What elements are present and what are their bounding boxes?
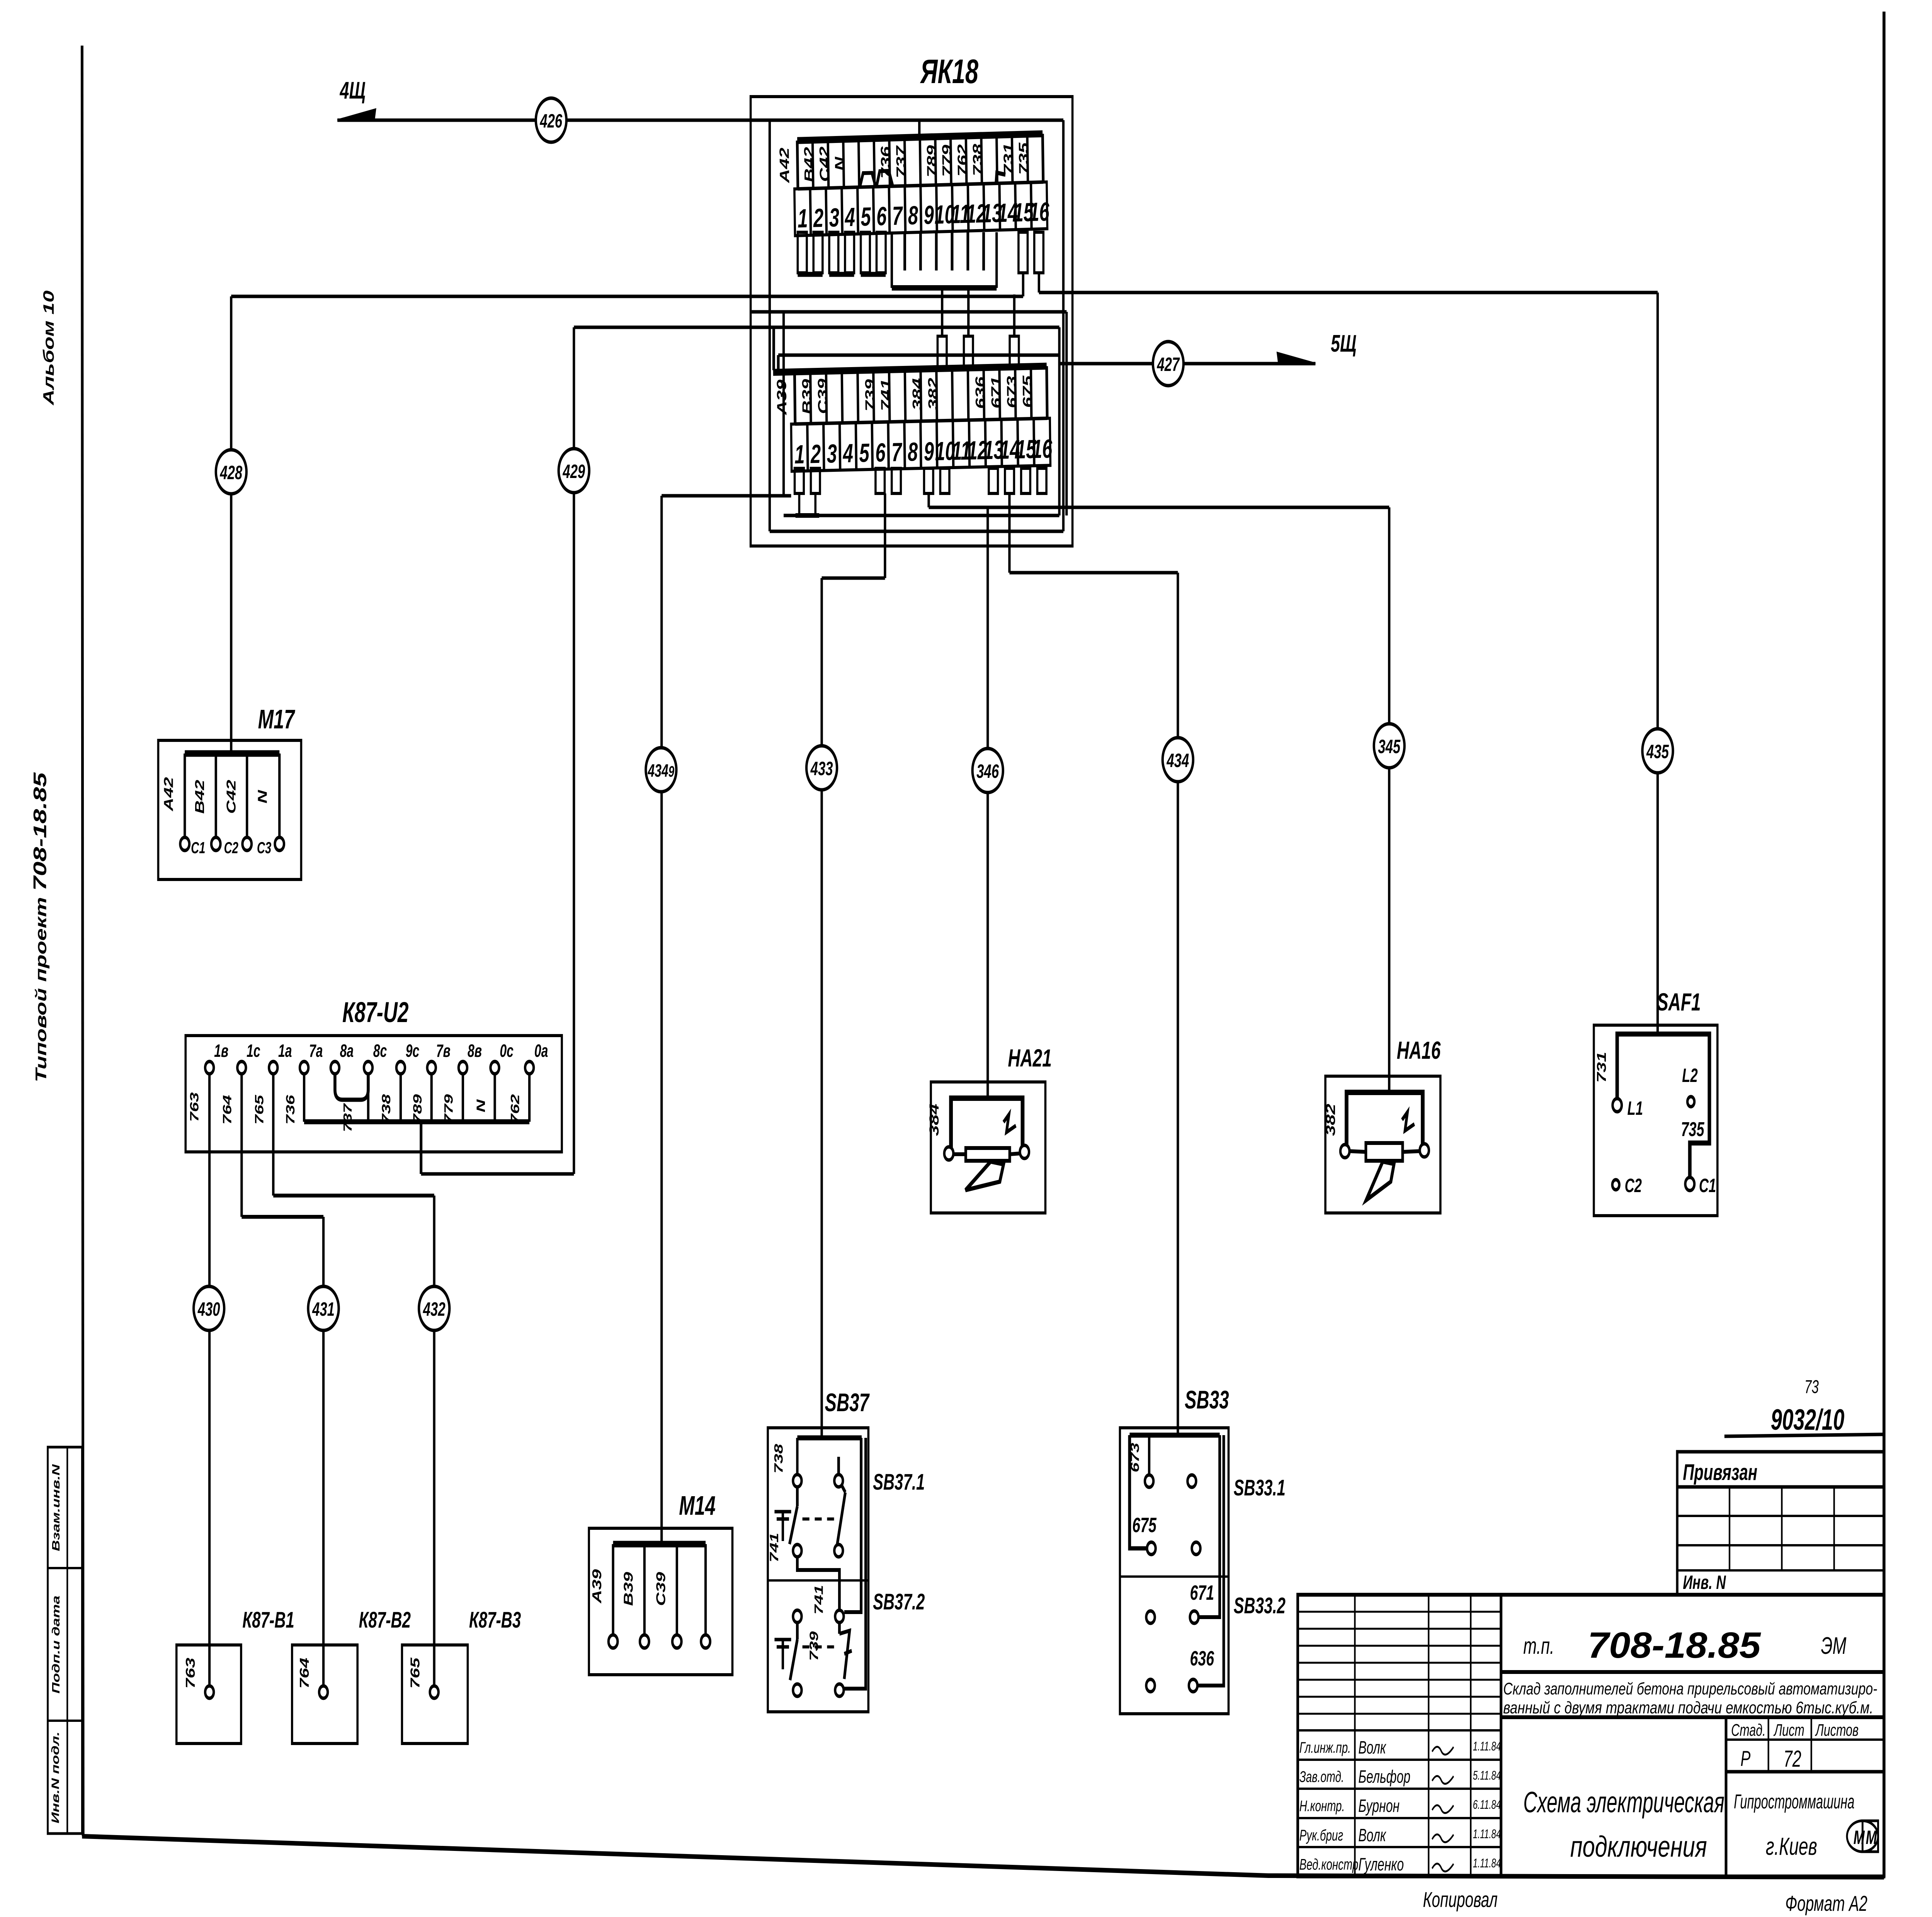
wire SB33 feeder with tag 434 <box>1009 493 1178 1435</box>
svg-text:Склад заполнителей бетона прир: Склад заполнителей бетона прирельсовый а… <box>1503 1680 1877 1699</box>
svg-text:1: 1 <box>794 440 805 469</box>
label SB37.2 <box>873 1589 925 1614</box>
margin label Inv.N podl. <box>50 1732 62 1823</box>
note Kopiroval <box>1423 1888 1498 1912</box>
SAF1 terminal L2 <box>1682 1065 1698 1107</box>
wire 4Shch feeder with tag 426 <box>337 109 1063 138</box>
svg-text:А39: А39 <box>774 379 790 416</box>
HA16 wire label 382 <box>1323 1104 1338 1136</box>
svg-text:5: 5 <box>861 202 871 231</box>
terminal strip YAK18 upper row cells <box>794 134 1047 236</box>
SAF1 terminal C2 <box>1612 1175 1642 1197</box>
svg-text:16: 16 <box>1032 434 1053 464</box>
svg-text:764: 764 <box>297 1658 311 1689</box>
svg-text:С39: С39 <box>653 1572 668 1606</box>
svg-text:737: 737 <box>341 1103 354 1132</box>
tag circle 431 <box>308 1286 338 1330</box>
SB33 wire to terminal 636 <box>1197 1435 1224 1686</box>
svg-text:8в: 8в <box>468 1041 482 1061</box>
svg-text:762: 762 <box>955 144 970 177</box>
SAF1 wire label 735 <box>1681 1118 1704 1141</box>
svg-text:С1: С1 <box>1699 1175 1716 1197</box>
tag circle 429 <box>559 449 589 493</box>
svg-text:7: 7 <box>892 201 903 231</box>
wire M17 feeder cable with tag 428 <box>230 296 233 754</box>
svg-text:9032/10: 9032/10 <box>1771 1403 1845 1436</box>
svg-text:9: 9 <box>924 437 934 466</box>
svg-text:НА21: НА21 <box>1008 1044 1052 1072</box>
svg-text:Привязан: Привязан <box>1683 1460 1757 1485</box>
svg-text:427: 427 <box>1157 354 1180 376</box>
heater box К87-В2 <box>292 1645 357 1744</box>
svg-text:Инв. N: Инв. N <box>1683 1572 1726 1594</box>
tag circle 346 <box>973 748 1003 793</box>
svg-text:735: 735 <box>1016 142 1032 175</box>
svg-text:738: 738 <box>772 1444 785 1474</box>
svg-text:671: 671 <box>1190 1581 1214 1604</box>
tag circle 432 <box>419 1286 449 1330</box>
svg-text:673: 673 <box>1004 376 1020 408</box>
margin text Albom 10 <box>40 290 57 405</box>
heater box К87-В1 <box>177 1645 241 1744</box>
svg-text:ЯК18: ЯК18 <box>920 53 978 91</box>
SB37.2 contact right 741 739 <box>835 1610 852 1696</box>
svg-text:737: 737 <box>893 145 909 179</box>
svg-text:739: 739 <box>807 1631 821 1661</box>
svg-text:Инв.N подл.: Инв.N подл. <box>50 1732 62 1823</box>
svg-text:SB37.2: SB37.2 <box>873 1589 925 1614</box>
svg-text:434: 434 <box>1167 750 1189 772</box>
svg-text:ЭМ: ЭМ <box>1821 1633 1847 1659</box>
SAF1 wire label 731 <box>1594 1052 1609 1083</box>
svg-text:L2: L2 <box>1682 1065 1698 1087</box>
drawing frame right border <box>1882 12 1886 1877</box>
svg-text:7в: 7в <box>436 1041 451 1061</box>
wire K87-U2 bus riser with tag 429 <box>574 327 1059 1174</box>
label К87-В1 <box>242 1607 294 1633</box>
drawing frame bottom border <box>82 1836 1884 1877</box>
margin label Podp.i data <box>50 1596 62 1694</box>
svg-text:7: 7 <box>891 438 903 467</box>
margin label Vzam.inv.N <box>50 1464 62 1551</box>
wire risers left of YAK18 lower strip <box>774 327 778 370</box>
title block signature labels <box>1299 1738 1501 1874</box>
svg-text:8с: 8с <box>373 1041 387 1061</box>
HA16 internal loop wire 382 <box>1340 1092 1429 1158</box>
HA21 wire label 384 <box>927 1104 942 1136</box>
svg-text:435: 435 <box>1646 741 1669 763</box>
label SB33 <box>1185 1386 1229 1414</box>
HA21 AC mark <box>1003 1114 1016 1132</box>
svg-text:В42: В42 <box>801 146 817 182</box>
svg-text:1.11.84: 1.11.84 <box>1473 1856 1501 1870</box>
svg-text:72: 72 <box>1783 1745 1801 1771</box>
main title block outline <box>1298 1595 1884 1876</box>
svg-text:Взам.инв.N: Взам.инв.N <box>50 1464 62 1551</box>
wire K87-B2 feeder with tag 431 <box>241 1074 323 1687</box>
margin text Tipovoy proekt 708-18.85 <box>30 772 50 1082</box>
YAK18 lower strip pin numbers 1-16 <box>794 434 1053 469</box>
tag circle 428 <box>216 450 247 494</box>
svg-text:В39: В39 <box>621 1572 635 1606</box>
svg-text:6.11.84: 6.11.84 <box>1473 1798 1501 1812</box>
tag circle 435 <box>1642 729 1673 773</box>
svg-text:763: 763 <box>187 1092 201 1122</box>
label К87-В3 <box>469 1607 521 1633</box>
svg-text:Гл.инж.пр.: Гл.инж.пр. <box>1299 1739 1351 1756</box>
svg-text:Стад.: Стад. <box>1731 1721 1765 1740</box>
tag circle 426 <box>536 98 566 142</box>
svg-text:762: 762 <box>508 1094 522 1124</box>
svg-text:9с: 9с <box>406 1041 420 1061</box>
svg-text:2: 2 <box>813 204 824 233</box>
svg-text:6: 6 <box>876 202 887 231</box>
svg-text:738: 738 <box>970 144 986 177</box>
HA16 horn flare <box>1366 1162 1394 1200</box>
svg-text:N: N <box>255 789 270 803</box>
YAK18 lower strip wire labels A39 B39 C39 739 741 384 382 636 671 673 675 <box>774 374 1036 415</box>
svg-text:9: 9 <box>923 201 934 230</box>
label SB37.1 <box>873 1470 925 1495</box>
svg-text:636: 636 <box>973 376 988 409</box>
label SB33.2 <box>1234 1593 1286 1618</box>
svg-text:Гуленко: Гуленко <box>1358 1855 1404 1874</box>
K87-U2 terminals 1v 1s 1a 7a 8a 8s 9s 7v 8v 0s 0a <box>205 1041 548 1074</box>
svg-text:Схема электрическая: Схема электрическая <box>1523 1786 1725 1818</box>
label M17 <box>258 704 296 734</box>
svg-text:С39: С39 <box>815 378 831 414</box>
title block object description <box>1501 1680 1884 1718</box>
svg-text:432: 432 <box>423 1299 446 1320</box>
svg-text:739: 739 <box>862 379 878 412</box>
svg-text:К87-В3: К87-В3 <box>469 1607 521 1633</box>
title block organization Giprostrommashina Kiev <box>1734 1791 1854 1860</box>
svg-text:764: 764 <box>220 1095 234 1125</box>
svg-text:С3: С3 <box>257 839 271 857</box>
svg-text:5: 5 <box>859 439 870 468</box>
YAK18 upper strip wire labels A42 B42 C42 N 736 737 789 779 762 738 731 735 <box>777 141 1032 184</box>
svg-text:Н.контр.: Н.контр. <box>1299 1798 1345 1815</box>
svg-text:К87-В1: К87-В1 <box>242 1607 294 1633</box>
svg-text:8: 8 <box>908 201 918 230</box>
svg-text:НА16: НА16 <box>1397 1036 1441 1064</box>
SB37 internal wires from bar to SB37.2 <box>844 1438 866 1689</box>
M17 terminal labels C1 C2 C3 <box>191 839 271 857</box>
svg-text:426: 426 <box>540 111 563 132</box>
svg-text:Р: Р <box>1740 1747 1750 1771</box>
wire HA21 feeder with tag 346 <box>986 507 990 1098</box>
HA21 bell element <box>953 1148 1020 1161</box>
pushbutton station SB37 outline <box>768 1428 868 1712</box>
stamp text Privyazan <box>1683 1460 1757 1485</box>
К87-В1 terminal with wire label 763 <box>183 1658 214 1698</box>
svg-text:С1: С1 <box>191 839 205 857</box>
svg-text:Формат А2: Формат А2 <box>1785 1891 1867 1916</box>
svg-text:1в: 1в <box>214 1041 228 1061</box>
bell HA21 outline <box>931 1082 1045 1213</box>
note Format A2 <box>1785 1891 1867 1916</box>
svg-text:Лист: Лист <box>1773 1721 1804 1740</box>
pushbutton station SB33 outline <box>1120 1428 1228 1714</box>
svg-text:4Щ: 4Щ <box>340 77 366 104</box>
SB37.2 mechanical link dashes <box>803 1645 835 1648</box>
label SAF1 <box>1657 988 1701 1016</box>
svg-text:M14: M14 <box>679 1490 716 1521</box>
svg-text:К87-В2: К87-В2 <box>359 1607 411 1633</box>
title block stage sheet columns <box>1726 1717 1884 1876</box>
svg-text:345: 345 <box>1378 736 1401 758</box>
HA16 bell element <box>1350 1143 1420 1161</box>
svg-text:765: 765 <box>252 1094 266 1124</box>
K87-U2 wire number labels 763 764 765 736 737 738 789 779 N 762 <box>187 1092 522 1132</box>
svg-text:В39: В39 <box>799 379 815 415</box>
svg-text:SB37.1: SB37.1 <box>873 1470 925 1495</box>
label SB37 <box>825 1389 870 1417</box>
tag circle 433 <box>806 746 837 790</box>
svg-text:765: 765 <box>408 1657 422 1689</box>
wire M14 feeder cable with tag 4349 <box>662 496 791 1544</box>
svg-text:7а: 7а <box>309 1041 323 1061</box>
svg-text:Копировал: Копировал <box>1423 1888 1498 1912</box>
svg-text:636: 636 <box>1190 1647 1214 1670</box>
svg-text:Вед.констр: Вед.констр <box>1299 1856 1359 1873</box>
wire K87-B1 feeder with tag 430 <box>208 1074 211 1686</box>
label M14 <box>679 1490 716 1521</box>
circuit breaker SAF1 outline <box>1594 1025 1718 1216</box>
SAF1 terminal C1 <box>1685 1175 1716 1197</box>
svg-text:Бельфор: Бельфор <box>1358 1767 1410 1787</box>
svg-text:731: 731 <box>1594 1052 1609 1083</box>
svg-text:789: 789 <box>924 145 940 178</box>
svg-text:Подп.и дата: Подп.и дата <box>50 1596 62 1694</box>
svg-text:4349: 4349 <box>648 761 674 781</box>
SB33 terminals <box>1145 1475 1201 1692</box>
label HA21 <box>1008 1044 1052 1072</box>
svg-text:1с: 1с <box>247 1041 260 1061</box>
svg-text:73: 73 <box>1804 1376 1819 1397</box>
terminal box YAK18 inner outline <box>770 120 1063 531</box>
SB33 wire to terminal 675 <box>1129 1435 1147 1548</box>
svg-text:SB37: SB37 <box>825 1389 870 1417</box>
wire trunk YAK18 pin15 to M17 drop <box>231 273 1023 296</box>
svg-text:Зав.отд.: Зав.отд. <box>1299 1769 1344 1786</box>
svg-text:подключения: подключения <box>1570 1830 1707 1863</box>
tag circle 427 <box>1153 342 1184 386</box>
terminal box K87-U2 outline <box>185 1036 562 1152</box>
title block document number t.p. 708-18.85 EM <box>1501 1625 1884 1672</box>
svg-text:430: 430 <box>197 1299 220 1320</box>
svg-text:779: 779 <box>940 145 955 177</box>
label 5Shch <box>1331 330 1356 357</box>
motor M17 outline <box>158 740 301 879</box>
svg-text:А42: А42 <box>162 777 176 811</box>
HA21 internal loop wire 384 <box>944 1098 1029 1160</box>
YAK18 upper strip wire-entry bumps pins 5-6 <box>860 171 893 187</box>
SAF1 terminal L1 <box>1612 1098 1643 1119</box>
svg-text:16: 16 <box>1029 197 1050 227</box>
svg-text:SB33: SB33 <box>1185 1386 1229 1414</box>
svg-text:4: 4 <box>842 439 853 468</box>
svg-text:675: 675 <box>1132 1513 1156 1536</box>
SB37.1 contact right <box>834 1457 845 1557</box>
svg-text:С2: С2 <box>224 839 238 857</box>
YAK18 upper strip hook mark pin 14 <box>996 173 1005 185</box>
tag circle 4349 <box>646 748 676 792</box>
SB37.1 contact left terminals 738 741 <box>789 1438 801 1557</box>
svg-text:M17: M17 <box>258 704 296 734</box>
svg-text:С42: С42 <box>817 146 832 182</box>
svg-text:М: М <box>1854 1827 1865 1849</box>
svg-text:1.11.84: 1.11.84 <box>1473 1739 1501 1753</box>
wire trunk YAK18 pin16 to SAF1 drop <box>1039 273 1658 1034</box>
svg-text:1: 1 <box>798 204 808 233</box>
svg-text:433: 433 <box>810 758 833 780</box>
svg-text:N: N <box>832 156 847 171</box>
SB37 input bar <box>797 1436 862 1441</box>
svg-text:Волк: Волк <box>1358 1825 1386 1845</box>
svg-text:384: 384 <box>910 378 925 410</box>
SB33 terminal labels 673 675 671 636 <box>1128 1443 1214 1670</box>
svg-text:Гипростроммашина: Гипростроммашина <box>1734 1791 1854 1813</box>
wire K87-B3 feeder with tag 432 <box>273 1074 434 1687</box>
svg-text:А39: А39 <box>590 1569 604 1604</box>
SAF1 pole L1-C1 wires 731 735 <box>1617 1034 1709 1178</box>
tag circle 434 <box>1163 738 1193 782</box>
svg-text:708-18.85: 708-18.85 <box>1588 1625 1762 1666</box>
svg-text:SB33.2: SB33.2 <box>1234 1593 1286 1618</box>
svg-text:741: 741 <box>767 1533 781 1563</box>
heater box К87-В3 <box>402 1645 468 1744</box>
К87-В2 terminal with wire label 764 <box>297 1658 328 1698</box>
svg-text:779: 779 <box>442 1094 455 1124</box>
svg-text:675: 675 <box>1020 375 1036 408</box>
svg-text:Типовой проект 708-18.85: Типовой проект 708-18.85 <box>30 772 50 1082</box>
tag circle 345 <box>1374 724 1405 768</box>
M14 phase labels A39 B39 C39 <box>590 1569 668 1606</box>
YAK18 upper strip terminal stubs <box>798 232 1043 288</box>
svg-text:382: 382 <box>1323 1104 1338 1136</box>
label K87-U2 <box>342 997 408 1028</box>
svg-text:Рук.бриг: Рук.бриг <box>1299 1827 1343 1844</box>
stamp upper table Privyazan <box>1677 1452 1884 1595</box>
stamp text Inv. N <box>1683 1572 1726 1594</box>
wire 5Shch feeder with tag 427 <box>1060 353 1316 364</box>
wire K87-U2 bus to riser 429 <box>421 1122 574 1174</box>
SB37.1 mechanical link dashes <box>803 1517 835 1521</box>
svg-text:428: 428 <box>220 462 243 484</box>
К87-В3 terminal with wire label 765 <box>408 1657 439 1698</box>
svg-text:Альбом 10: Альбом 10 <box>40 290 57 405</box>
label YAK18 <box>920 53 978 91</box>
M17 winding comb A42 B42 C42 N <box>180 754 284 850</box>
svg-text:SAF1: SAF1 <box>1657 988 1701 1016</box>
wire run y919 inside YAK18 <box>778 354 1059 357</box>
svg-text:384: 384 <box>927 1104 942 1136</box>
svg-text:741: 741 <box>812 1585 825 1615</box>
svg-text:0а: 0а <box>534 1041 548 1061</box>
svg-text:731: 731 <box>1001 143 1016 175</box>
YAK18 lower strip upper-side stubs <box>937 289 1019 368</box>
SB33 wire to terminal 671 <box>1199 1435 1220 1617</box>
SB37 contact labels 738 741 741 739 <box>767 1444 826 1661</box>
SB37 jumper 741 <box>797 1557 839 1610</box>
drawing frame left border <box>82 46 83 1836</box>
terminal box YAK18 outer outline <box>751 97 1073 546</box>
svg-text:К87-U2: К87-U2 <box>342 997 408 1028</box>
svg-text:736: 736 <box>284 1094 297 1124</box>
svg-text:738: 738 <box>379 1094 393 1124</box>
SB37.2 button actuator <box>774 1640 791 1669</box>
M17 phase labels A42 B42 C42 N <box>162 777 270 814</box>
svg-text:0с: 0с <box>500 1041 514 1061</box>
wire HA16 feeder trunk with tag 345 <box>929 493 1389 1092</box>
wire SB37 feeder with tag 433 <box>822 493 885 1438</box>
HA21 horn flare <box>966 1162 1004 1190</box>
svg-text:2: 2 <box>810 439 821 469</box>
label К87-В2 <box>359 1607 411 1633</box>
SB37.1 button actuator <box>774 1512 791 1541</box>
tag circle 430 <box>194 1286 224 1330</box>
wire run y807 inside YAK18 <box>752 312 1066 515</box>
svg-text:8: 8 <box>908 437 918 467</box>
SB33 input bar <box>1129 1433 1219 1438</box>
svg-text:L1: L1 <box>1628 1098 1643 1119</box>
svg-text:789: 789 <box>411 1094 424 1124</box>
svg-text:С2: С2 <box>1625 1175 1642 1197</box>
svg-text:Бурнон: Бурнон <box>1358 1796 1400 1816</box>
svg-text:N: N <box>474 1099 488 1112</box>
svg-text:5Щ: 5Щ <box>1331 330 1356 357</box>
svg-text:Волк: Волк <box>1358 1738 1386 1757</box>
svg-text:3: 3 <box>827 439 837 468</box>
svg-text:671: 671 <box>988 376 1004 408</box>
svg-text:1.11.84: 1.11.84 <box>1473 1827 1501 1841</box>
label 4Shch <box>340 77 366 104</box>
HA16 AC mark <box>1402 1112 1415 1131</box>
svg-text:т.п.: т.п. <box>1523 1633 1554 1658</box>
bell HA16 outline <box>1325 1076 1440 1213</box>
YAK18 upper strip pin numbers 1-16 <box>798 197 1050 233</box>
svg-text:А42: А42 <box>777 147 793 184</box>
svg-text:673: 673 <box>1128 1443 1141 1473</box>
K87-U2 internal bus comb <box>304 1074 529 1122</box>
svg-text:735: 735 <box>1681 1118 1704 1141</box>
SB37.2 contact left <box>790 1610 802 1696</box>
svg-text:1а: 1а <box>278 1041 292 1061</box>
svg-text:3: 3 <box>829 203 839 232</box>
label SB33.1 <box>1234 1475 1286 1500</box>
motor M14 outline <box>589 1528 732 1675</box>
svg-text:6: 6 <box>875 438 886 468</box>
svg-text:5.11.84: 5.11.84 <box>1473 1769 1501 1783</box>
svg-text:М: М <box>1866 1827 1878 1849</box>
svg-text:г.Киев: г.Киев <box>1766 1832 1817 1860</box>
svg-text:346: 346 <box>976 761 999 782</box>
svg-text:ванный с двумя трактами подачи: ванный с двумя трактами подачи емкостью … <box>1503 1699 1873 1718</box>
left margin stamp box <box>48 1447 82 1834</box>
title block drawing name <box>1523 1786 1725 1863</box>
svg-text:8а: 8а <box>340 1041 354 1061</box>
M14 winding comb A39 B39 C39 <box>609 1544 710 1648</box>
svg-text:429: 429 <box>563 461 585 483</box>
SB33 wire to terminal 673 <box>1148 1435 1151 1475</box>
svg-text:SB33.1: SB33.1 <box>1234 1475 1286 1500</box>
svg-text:Листов: Листов <box>1815 1721 1859 1740</box>
svg-text:763: 763 <box>183 1658 197 1689</box>
YAK18 lower strip terminal stubs <box>795 468 1047 515</box>
terminal strip YAK18 lower row cells <box>773 366 1051 471</box>
label HA16 <box>1397 1036 1441 1064</box>
